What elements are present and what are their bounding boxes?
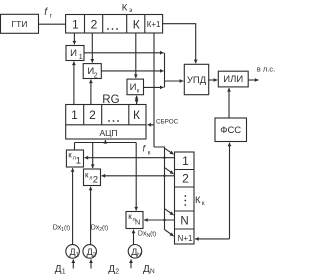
diagonal arrow into Kk cell1 [165, 148, 174, 154]
wire D1 to k_l1 [72, 168, 74, 245]
svg-text:2: 2 [94, 73, 98, 80]
wire counter cellK to Ik [135, 33, 137, 78]
svg-text:К+1: К+1 [147, 20, 161, 29]
block ILI (OR) [218, 71, 248, 87]
diagonal arrow into Kk cellN+1 [165, 230, 174, 237]
svg-text:к: к [68, 151, 72, 160]
svg-text:1: 1 [182, 154, 189, 168]
AND gate I2 [83, 64, 101, 79]
svg-text:Д: Д [108, 264, 115, 275]
svg-text:N: N [135, 218, 140, 227]
wire N+1 up to FSS [229, 143, 231, 239]
wire counter cell1 to I1 [73, 33, 75, 45]
diagonal arrow into Kk cellN [165, 209, 174, 215]
svg-text:N: N [137, 252, 141, 258]
svg-text:f: f [44, 7, 48, 18]
sensor circle D1 [66, 245, 80, 259]
wire dropper to k_l2 [92, 143, 94, 169]
svg-text:2: 2 [91, 17, 98, 31]
counter K_k column [175, 152, 195, 244]
block FSS [215, 118, 247, 142]
wire GTI to counter [39, 23, 66, 25]
svg-text:Д: Д [55, 264, 62, 275]
svg-text:Dx2(t): Dx2(t) [91, 225, 108, 234]
wire D2 to k_l2 [90, 187, 92, 245]
dots of ellipsis in RG row [108, 120, 119, 122]
wire f_k corner and lower bus [154, 147, 165, 230]
wire counter cell2 to I2 [91, 33, 93, 63]
svg-text:2: 2 [182, 172, 189, 186]
wire I2 output to bus [101, 70, 163, 72]
wire RG cellK to Ik [136, 96, 138, 105]
svg-text:И: И [130, 82, 137, 93]
AND gate Ik [127, 79, 144, 95]
wire f_k horizontal distribution [75, 142, 137, 144]
wire Kk cell1 to k_l1 [85, 157, 175, 159]
wire UPD to ILI [209, 79, 218, 81]
svg-text:1: 1 [62, 268, 66, 275]
svg-text:N: N [180, 216, 188, 228]
wire I1 output to bus [84, 52, 164, 54]
svg-text:1: 1 [79, 54, 83, 61]
block GTI (clock generator) [1, 14, 39, 33]
wire SBROS vertical from K+1 [153, 33, 155, 147]
svg-text:СБРОС: СБРОС [156, 119, 179, 126]
svg-text:Д: Д [143, 264, 150, 275]
sensor circle DN [128, 245, 142, 259]
wire dropper to k_lN [135, 143, 137, 211]
svg-text:к: к [137, 88, 140, 94]
counter K_e row [66, 15, 163, 34]
wire stub into ADC bottom [104, 140, 106, 143]
wire SBROS branch into RG/ADC [148, 124, 155, 126]
dots of ellipsis in counter row [107, 28, 118, 30]
svg-text:в л.с.: в л.с. [257, 65, 275, 74]
svg-text:к: к [148, 151, 151, 157]
wire RG cell2 to I2 [90, 80, 92, 105]
svg-text:ФСС: ФСС [220, 125, 241, 136]
block UPD [184, 64, 208, 94]
diagonal arrow into Kk cell2 [165, 168, 174, 174]
svg-text:АЦП: АЦП [99, 128, 117, 138]
svg-text:2: 2 [115, 269, 119, 276]
svg-text:f: f [143, 144, 147, 154]
svg-text:К: К [122, 2, 128, 13]
key k_l2 [84, 169, 101, 186]
svg-text:N+1: N+1 [178, 234, 193, 243]
AND gate I1 [66, 46, 84, 61]
svg-text:1: 1 [76, 156, 81, 167]
wire bus to UPD input [165, 80, 184, 82]
svg-text:К: К [133, 17, 140, 31]
svg-text:N: N [150, 268, 155, 275]
wire DN to k_lN [133, 230, 135, 245]
svg-text:г: г [50, 12, 53, 19]
input stub into D1 [72, 259, 74, 268]
wire Kk cellN to k_lN [144, 219, 175, 221]
bus to UPD vertical [164, 53, 166, 88]
svg-text:э: э [129, 7, 133, 14]
svg-text:1: 1 [72, 17, 79, 31]
sensor circle D2 [83, 245, 97, 259]
wire FSS line into N+1 [195, 238, 230, 240]
svg-text:DxN(t): DxN(t) [138, 231, 156, 240]
svg-text:ИЛИ: ИЛИ [223, 74, 243, 85]
wire RG cell1 to I1 [73, 62, 75, 105]
svg-text:RG: RG [102, 94, 119, 106]
svg-text:Dx1(t): Dx1(t) [53, 225, 70, 234]
svg-text:К: К [195, 195, 201, 206]
wire ILI output v l.s. [248, 79, 258, 81]
register RG with ADC row [66, 105, 146, 140]
svg-text:2: 2 [93, 175, 98, 186]
input stub into DN [130, 259, 132, 268]
svg-text:к: к [202, 200, 205, 207]
junction dots on lower bus [163, 157, 165, 222]
wire K+1 to UPD [163, 24, 196, 64]
svg-text:К: К [133, 108, 140, 122]
svg-text:1: 1 [71, 108, 78, 122]
svg-text:ГТИ: ГТИ [12, 19, 28, 29]
wire Ik output to bus [144, 86, 164, 88]
dots of vertical ellipsis in Kk column [184, 195, 186, 206]
wire Kk cell2 to k_l2 [102, 175, 175, 177]
svg-text:2: 2 [89, 108, 96, 122]
svg-text:И: И [70, 48, 77, 59]
svg-text:УПД: УПД [187, 75, 207, 86]
key k_lN [126, 212, 143, 229]
input stub into D2 [90, 259, 92, 268]
wire k_l1 riser [74, 143, 76, 151]
wire FSS to ILI [228, 88, 230, 118]
key k_l1 [66, 150, 83, 167]
